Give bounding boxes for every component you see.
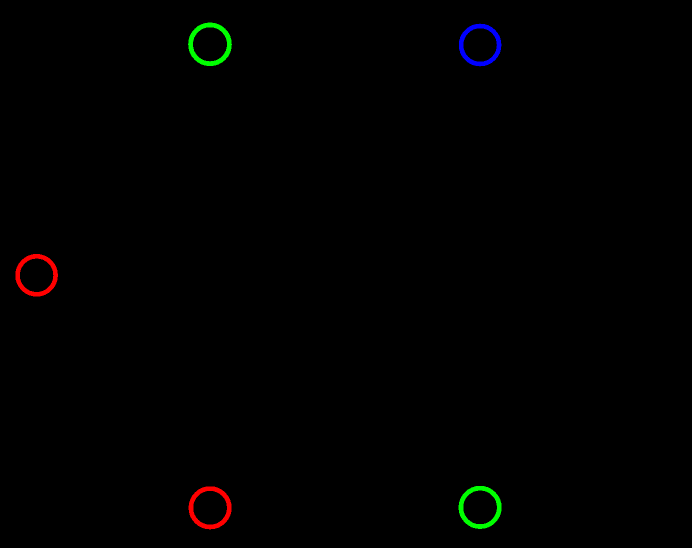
atom O2 (blue oxygen, top right) xyxy=(461,26,499,64)
atom O4 (red oxygen, bottom middle) xyxy=(191,489,229,527)
atom O5 (green oxygen, bottom right) xyxy=(461,488,499,526)
atom O3 (red oxygen, middle left) xyxy=(18,256,56,294)
atom O1 (green oxygen, top left) xyxy=(191,25,230,64)
